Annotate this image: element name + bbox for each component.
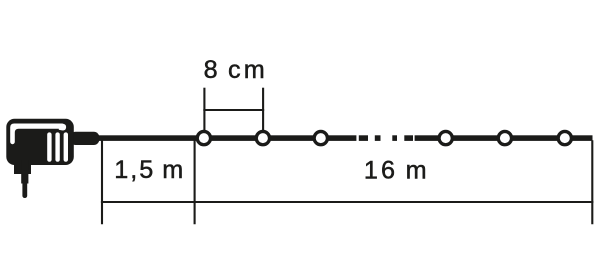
vent slot 1: [47, 132, 51, 161]
left dimension tick: [101, 140, 103, 224]
bulb L3: [314, 131, 327, 144]
plug pin: [22, 170, 27, 198]
bottom dimension line: [101, 201, 593, 203]
wire dash 3: [392, 135, 397, 141]
bulb L6: [558, 131, 571, 144]
vent slot 3: [64, 132, 68, 161]
stem wide part: [14, 160, 31, 174]
bulb L5: [498, 131, 511, 144]
bulb L2: [256, 131, 269, 144]
cable stub of plug: [70, 132, 99, 145]
wire dash 2: [375, 135, 381, 141]
wire dash 4: [404, 135, 413, 141]
bulb L4: [439, 131, 452, 144]
plug body: [6, 119, 74, 165]
vent slot 2: [55, 132, 59, 161]
svg-text:8 cm: 8 cm: [204, 56, 268, 84]
svg-text:16 m: 16 m: [364, 157, 430, 185]
stem narrow part: [21, 160, 28, 184]
dimension tick above bulb 2: [262, 88, 264, 132]
wire right segment: [415, 135, 593, 141]
right dimension tick: [591, 140, 593, 224]
body highlight wedge: [10, 124, 66, 145]
bulb L1: [197, 131, 210, 144]
8 cm connector line: [203, 109, 264, 111]
power plug adapter P1: [6, 119, 99, 198]
middle dimension tick: [194, 140, 196, 224]
dimension tick above bulb 1: [203, 88, 205, 132]
wire left segment: [96, 135, 356, 141]
svg-text:1,5 m: 1,5 m: [114, 156, 185, 184]
wire dash 1: [359, 135, 368, 141]
